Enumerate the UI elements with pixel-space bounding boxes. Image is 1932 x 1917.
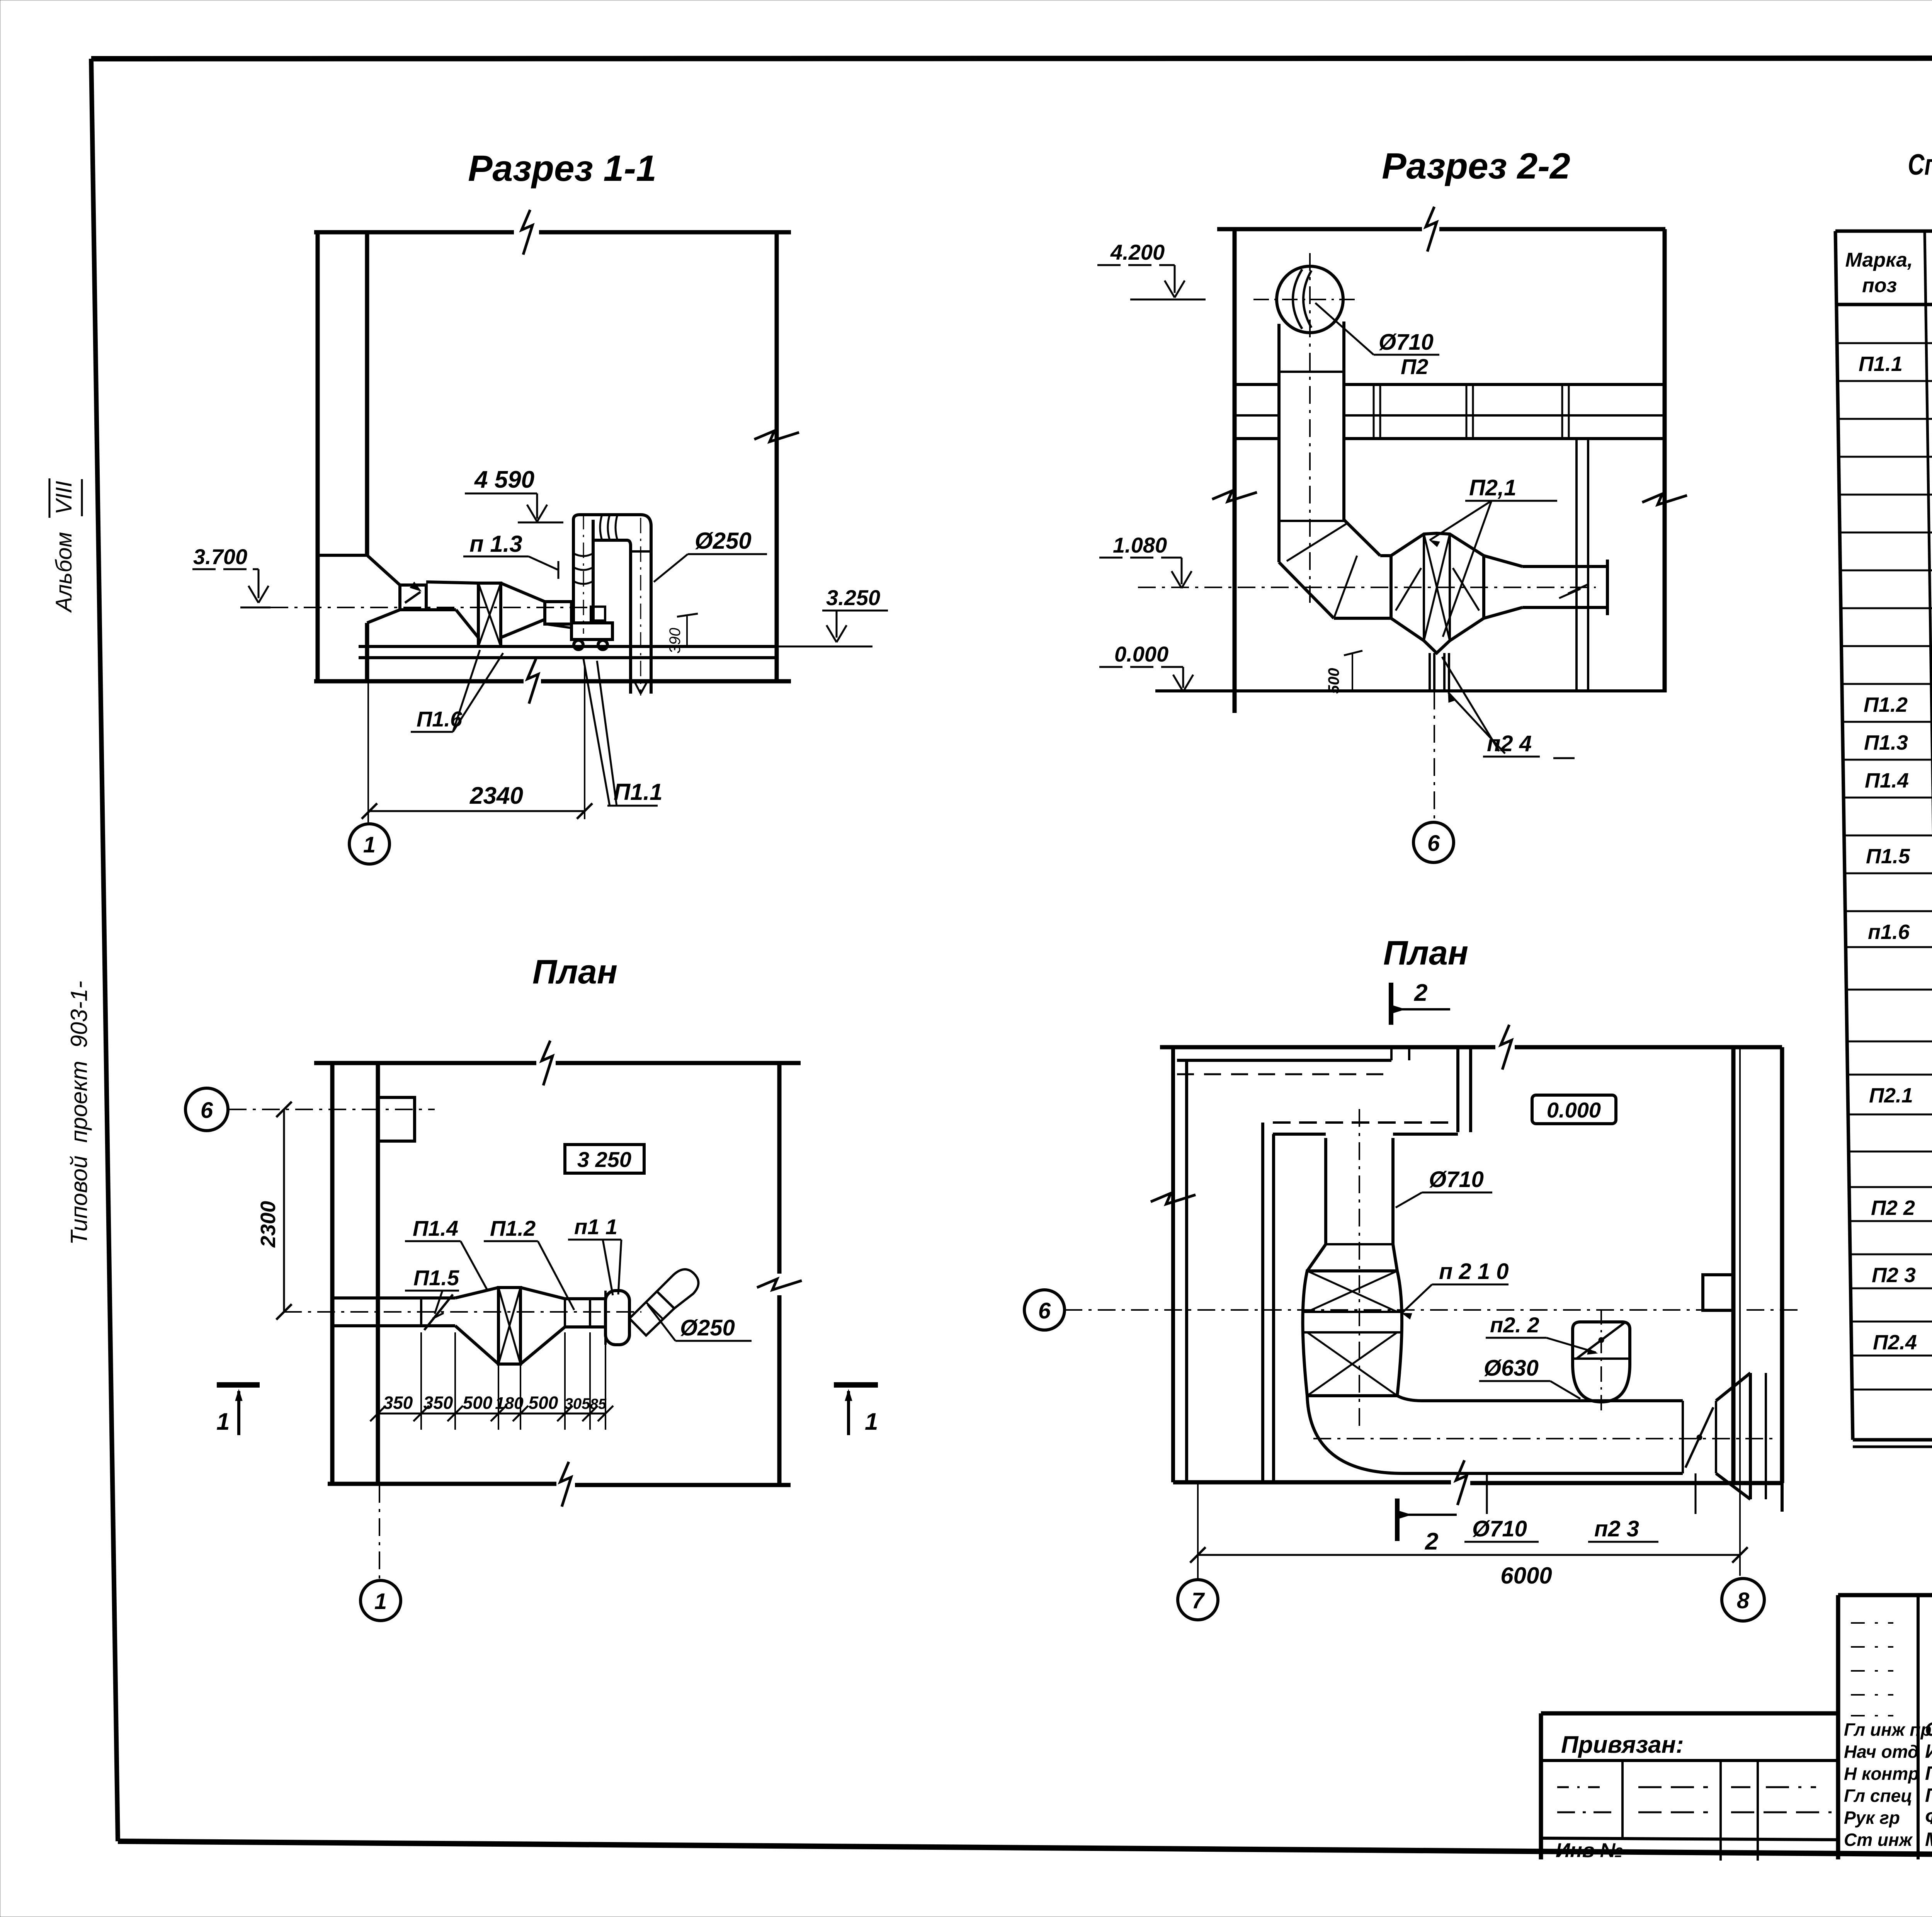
- floor slab bottom line: [359, 656, 777, 659]
- wall joint verticals at duct chase: [1390, 1047, 1393, 1060]
- svg-text:Спецификация отопительно-вент: Спецификация отопительно-вентиляционных …: [1908, 148, 1932, 181]
- fan wheel left: [574, 640, 583, 650]
- duct chase bottom wall: [1273, 1121, 1458, 1124]
- elbow inner corner: [1397, 1396, 1422, 1401]
- svg-text:Альбом: Альбом: [51, 532, 77, 613]
- svg-text:350: 350: [383, 1393, 413, 1413]
- break mark bottom wall plan-right: [1456, 1460, 1467, 1505]
- fan column centreline: [583, 514, 584, 634]
- svg-text:Ø710: Ø710: [1429, 1167, 1484, 1192]
- svg-text:180: 180: [495, 1394, 524, 1413]
- wall step ledge: [318, 554, 367, 557]
- svg-text:1: 1: [216, 1408, 230, 1435]
- damper П1.5 slash: [424, 1294, 453, 1330]
- plan-right right wall outer: [1780, 1047, 1784, 1483]
- discharge 45 duct segment: [629, 1291, 674, 1335]
- floor level line beyond wall (3.250): [777, 646, 872, 648]
- break mark left wall 2-2: [1212, 491, 1257, 502]
- svg-text:2340: 2340: [469, 782, 523, 809]
- svg-text:4 590: 4 590: [474, 466, 534, 493]
- svg-text:П1.5: П1.5: [413, 1266, 459, 1290]
- svg-text:Рук гр: Рук гр: [1844, 1808, 1900, 1828]
- dimension 2300 vertical: [283, 1109, 285, 1312]
- section 1-1 left wall inner line lower part: [365, 623, 369, 681]
- signature table upper dashes: [1851, 1622, 1893, 1624]
- pilaster on axis 6 right: [1703, 1275, 1733, 1310]
- svg-text:0.000: 0.000: [1114, 642, 1168, 666]
- supply duct top line (plan): [332, 1296, 455, 1300]
- outlet duct bottom: [1522, 606, 1607, 609]
- svg-text:п1 1: п1 1: [574, 1214, 617, 1239]
- fan joint: [604, 1291, 607, 1345]
- axis bubble 6 (plan-right): [1024, 1290, 1065, 1330]
- top elbow inner: [593, 539, 627, 542]
- duct bottom line to heater: [426, 608, 456, 611]
- horizontal duct centreline: [1313, 1438, 1777, 1439]
- equipment centreline 1-1: [270, 607, 587, 608]
- svg-text:85: 85: [590, 1396, 607, 1412]
- discharge joint lines: [646, 1302, 663, 1319]
- break mark bottom wall plan-left: [560, 1462, 571, 1507]
- horizontal axis 2-2: [1138, 587, 1596, 588]
- plan-left top wall: [314, 1061, 536, 1065]
- plan-right bottom wall: [1173, 1480, 1451, 1485]
- outlet duct top: [1522, 565, 1607, 568]
- svg-text:6: 6: [1038, 1298, 1051, 1323]
- svg-text:П1.2: П1.2: [490, 1216, 536, 1240]
- heater X (plan): [498, 1288, 520, 1364]
- svg-text:Ст инж: Ст инж: [1844, 1830, 1913, 1850]
- axis bubble 7: [1178, 1580, 1218, 1620]
- fan П1.1 discharge column right line: [592, 520, 595, 623]
- horizontal duct Ø710 top line: [1422, 1399, 1683, 1402]
- vertical duct Ø710 (plan) right line: [1391, 1138, 1395, 1244]
- svg-text:Фомина: Фомина: [1925, 1806, 1932, 1828]
- привязан dash rows: [1557, 1786, 1600, 1788]
- svg-text:П2 2: П2 2: [1871, 1196, 1915, 1220]
- svg-text:План: План: [532, 953, 617, 991]
- branch damper slash: [1577, 1322, 1626, 1359]
- flow arrow at duct end: [634, 680, 641, 694]
- duct joint at elbow start: [1279, 520, 1344, 522]
- louvre arrow: [405, 592, 420, 603]
- vertical duct П2 left line: [1277, 324, 1281, 562]
- section 2-2 ceiling line: [1217, 227, 1422, 231]
- wall-to-louvre transition bottom: [367, 610, 400, 623]
- привязан inner verticals: [1621, 1761, 1624, 1838]
- svg-text:П2,1: П2,1: [1469, 475, 1516, 500]
- axis 6 dash line plan-left: [229, 1109, 435, 1110]
- spec table header separator: [1837, 303, 1932, 306]
- duct Ø250 centreline down: [640, 518, 641, 696]
- svg-text:Инв №: Инв №: [1556, 1839, 1623, 1862]
- svg-text:П1.2: П1.2: [1864, 693, 1908, 716]
- section mark 2 bottom: [1395, 1499, 1400, 1541]
- heater П1.4 box (section): [478, 583, 501, 646]
- axis 6 dash line plan-right: [1065, 1309, 1724, 1311]
- svg-text:Ø250: Ø250: [680, 1315, 735, 1340]
- impeller arcs in circle: [1293, 269, 1302, 329]
- svg-text:Соловьев: Соловьев: [1925, 1718, 1932, 1740]
- svg-text:2: 2: [1425, 1528, 1438, 1555]
- heater П1.4 box (plan): [498, 1288, 520, 1364]
- dimension 390 vertical: [686, 615, 688, 646]
- break mark right wall plan-left: [757, 1279, 802, 1290]
- plan-right left wall: [1171, 1047, 1175, 1482]
- svg-text:План: План: [1383, 934, 1468, 972]
- circle horizontal axis: [1253, 299, 1360, 300]
- svg-text:П1.1: П1.1: [614, 779, 663, 805]
- plan-left outer left wall: [330, 1063, 335, 1484]
- flexible insert BB-10 curves on top duct: [600, 515, 602, 540]
- break mark on ceiling 2-2: [1426, 207, 1437, 252]
- dimension chain ticks: [370, 1406, 386, 1421]
- break mark left wall plan-right: [1151, 1193, 1196, 1204]
- svg-text:Галкина: Галкина: [1925, 1762, 1932, 1784]
- elbow top line to heater: [1380, 554, 1391, 557]
- elbow miter seam 2: [1334, 556, 1357, 618]
- fan base: [571, 623, 612, 640]
- svg-text:П1.5: П1.5: [1866, 845, 1910, 868]
- level box 3 250: [565, 1145, 644, 1173]
- intake louvre П1.5: [400, 585, 426, 610]
- duct joint line: [1326, 1243, 1393, 1245]
- svg-text:П2 3: П2 3: [1872, 1264, 1916, 1287]
- section 1-1 left wall outer line: [316, 232, 320, 681]
- converging transition top (plan): [520, 1288, 565, 1299]
- extension line at fan centre: [584, 665, 585, 819]
- elbow to horizontal duct (plan) outer arc: [1307, 1396, 1403, 1473]
- svg-text:6000: 6000: [1500, 1563, 1552, 1589]
- svg-text:П2: П2: [1401, 354, 1428, 379]
- svg-text:п1.6: п1.6: [1868, 920, 1910, 944]
- svg-text:8: 8: [1737, 1588, 1750, 1613]
- fan wheel right: [598, 640, 607, 650]
- right elbow outer: [627, 515, 651, 694]
- svg-text:6: 6: [201, 1098, 213, 1123]
- section 1-1 right wall: [775, 232, 779, 681]
- heater П2.1 hexagon outline: [1391, 533, 1484, 653]
- floor slab top line: [359, 645, 777, 648]
- svg-text:П2.4: П2.4: [1873, 1331, 1917, 1354]
- extension lines to dimension chain: [377, 1332, 379, 1430]
- upper slab line 3: [1235, 437, 1279, 440]
- duct П1.2 segment: [565, 1297, 605, 1300]
- break mark top wall plan-right: [1501, 1025, 1512, 1070]
- flexible insert П1.2 box: [545, 602, 571, 624]
- expanding transition bottom (plan): [455, 1326, 498, 1364]
- pilaster on axis 6: [378, 1097, 415, 1141]
- spec table outer frame: [1835, 230, 1932, 233]
- elbow bottom line: [1334, 617, 1391, 620]
- right elbow inner: [627, 540, 631, 694]
- dimension 6000: [1198, 1554, 1740, 1556]
- svg-text:3.250: 3.250: [826, 585, 880, 610]
- wall louvre verticals: [1749, 1373, 1752, 1499]
- heater X-brace: [478, 583, 501, 646]
- branch centreline: [1600, 1309, 1602, 1414]
- svg-text:2300: 2300: [257, 1201, 280, 1248]
- svg-text:Малыгин: Малыгин: [1925, 1829, 1932, 1850]
- axis line to bubble 6 (2-2): [1434, 692, 1435, 822]
- slab joint ticks: [1373, 384, 1375, 439]
- converging transition bottom (plan): [520, 1327, 565, 1364]
- vertical duct П2 right line: [1342, 321, 1345, 520]
- converging cone bottom: [501, 619, 545, 638]
- duct end cap at outside: [331, 1298, 334, 1326]
- upper slab line 2: [1235, 414, 1279, 417]
- heater corner slashes: [1396, 568, 1421, 611]
- break mark right wall 2-2: [1642, 494, 1687, 505]
- spec table row lines: [1837, 342, 1932, 344]
- break mark top wall plan-left: [542, 1041, 553, 1085]
- axis break arrow right: [1559, 584, 1588, 598]
- section mark 2 top: [1389, 983, 1393, 1025]
- heater seam lines: [1304, 1311, 1401, 1313]
- svg-text:350: 350: [423, 1393, 453, 1413]
- outlet cone to wall louvre: [1716, 1373, 1750, 1401]
- svg-text:Ø710: Ø710: [1379, 330, 1434, 355]
- svg-text:п2. 2: п2. 2: [1490, 1313, 1539, 1337]
- exit cone bottom: [1484, 607, 1522, 618]
- plan-left inner left wall: [376, 1063, 380, 1484]
- svg-text:п 2 1 0: п 2 1 0: [1439, 1259, 1509, 1284]
- svg-text:500: 500: [463, 1393, 493, 1413]
- svg-text:Гл инж пр: Гл инж пр: [1844, 1720, 1932, 1740]
- fan П1.1 scroll (plan): [605, 1291, 629, 1345]
- fan inlet circle Ø710: [1277, 266, 1343, 333]
- upper slab line 1: [1235, 383, 1279, 386]
- dimension 500 vertical: [1352, 653, 1353, 691]
- section mark 1 right: [834, 1382, 878, 1388]
- heater mid verticals: [1423, 534, 1425, 641]
- plan-right top wall inner line: [1177, 1059, 1391, 1062]
- wall-to-louvre transition top: [367, 555, 400, 585]
- section 1-1 left wall inner line: [365, 232, 369, 555]
- svg-text:Ø710: Ø710: [1472, 1516, 1527, 1541]
- svg-text:П1.1: П1.1: [1859, 352, 1903, 376]
- duct vertical centreline: [1309, 253, 1311, 603]
- plan-right right wall inner: [1731, 1047, 1736, 1482]
- svg-text:Разрез 2-2: Разрез 2-2: [1382, 146, 1570, 187]
- svg-text:1: 1: [374, 1589, 387, 1614]
- section 2-2 left wall: [1233, 229, 1237, 713]
- flexible joint lines on column: [573, 553, 593, 556]
- supply duct bottom line (plan): [332, 1324, 455, 1327]
- fan motor box: [591, 607, 605, 621]
- svg-text:Привязан:: Привязан:: [1561, 1732, 1684, 1758]
- svg-text:П2.1: П2.1: [1869, 1084, 1913, 1107]
- svg-text:6: 6: [1427, 831, 1440, 856]
- duct top line to heater: [426, 582, 478, 583]
- svg-text:Типовой проект 903-1-: Типовой проект 903-1-: [66, 981, 92, 1245]
- svg-text:Нач отд: Нач отд: [1844, 1742, 1918, 1762]
- duct joint at 350: [420, 1298, 422, 1326]
- lower wall below slab (right): [1575, 439, 1578, 691]
- partition wall left of heater: [1261, 1123, 1264, 1482]
- top elbow outer: [573, 515, 627, 520]
- signature table column lines: [1917, 1595, 1920, 1859]
- break mark on right wall: [754, 431, 799, 442]
- floor line 2-2: [1155, 689, 1665, 692]
- plan-right left wall inner line: [1185, 1060, 1188, 1482]
- dimension chain line: [378, 1413, 605, 1415]
- section 2-2 right wall: [1663, 229, 1667, 692]
- column axis line to bubble 1: [367, 681, 369, 822]
- dimension 2340: [369, 810, 585, 812]
- svg-text:Марка,: Марка,: [1845, 249, 1913, 271]
- svg-text:Н контр: Н контр: [1844, 1764, 1919, 1784]
- break mark on bottom line: [527, 659, 538, 704]
- discharge elbow cap: [657, 1269, 699, 1308]
- section 1-1 bottom boundary line: [314, 679, 524, 684]
- svg-text:3.700: 3.700: [193, 544, 247, 569]
- hidden edge dashed line: [1177, 1073, 1387, 1075]
- branch seam: [1573, 1357, 1630, 1360]
- axis bubble 8: [1722, 1579, 1764, 1621]
- axis bubble 6 (section 2-2): [1413, 822, 1454, 862]
- duct chase right wall: [1456, 1047, 1459, 1132]
- duct joint near circle: [1279, 371, 1344, 373]
- pривязан block frame: [1541, 1711, 1838, 1716]
- svg-text:0.000: 0.000: [1547, 1098, 1601, 1122]
- plan equipment centreline: [284, 1311, 641, 1313]
- svg-text:п2 3: п2 3: [1594, 1516, 1639, 1541]
- svg-text:1: 1: [865, 1408, 878, 1435]
- axis bubble 1 (section): [349, 824, 389, 864]
- svg-text:поз: поз: [1862, 274, 1897, 297]
- svg-text:1.080: 1.080: [1113, 533, 1167, 557]
- axis bubble 6 (plan-left): [185, 1088, 228, 1131]
- svg-text:VIII: VIII: [51, 481, 77, 514]
- sheet border frame: [91, 58, 1932, 59]
- svg-text:П1.3: П1.3: [1864, 731, 1908, 754]
- svg-text:4.200: 4.200: [1110, 240, 1165, 264]
- svg-text:500: 500: [1325, 668, 1342, 694]
- elbow miter seam 1: [1287, 522, 1349, 561]
- 0.000 level box: [1532, 1095, 1616, 1124]
- break mark on ceiling: [522, 210, 532, 255]
- section mark 1 left: [217, 1382, 260, 1388]
- svg-text:Ø630: Ø630: [1484, 1356, 1539, 1381]
- extension line at axis 8: [1739, 1048, 1741, 1576]
- svg-text:Ионкин: Ионкин: [1925, 1740, 1932, 1762]
- outlet flange: [1606, 560, 1609, 615]
- svg-text:3 250: 3 250: [577, 1147, 631, 1172]
- horizontal duct Ø710 bottom line: [1403, 1472, 1683, 1475]
- svg-text:Ø250: Ø250: [695, 528, 752, 554]
- svg-text:Га лкина: Га лкина: [1925, 1784, 1932, 1806]
- elbow inner diagonal: [1344, 520, 1380, 556]
- heater X cross: [1424, 534, 1450, 641]
- spec table column lines: [1925, 231, 1932, 1440]
- duct joint line at elbow: [631, 550, 651, 553]
- svg-text:П1.4: П1.4: [1865, 769, 1909, 792]
- svg-text:1: 1: [363, 832, 376, 857]
- heater X top: [1307, 1271, 1397, 1312]
- expanding transition top (plan): [455, 1288, 498, 1298]
- axis bubble 1 (plan-left): [361, 1580, 401, 1621]
- exit cone top: [1484, 556, 1522, 566]
- signature table frame: [1838, 1593, 1932, 1597]
- svg-text:2: 2: [1414, 980, 1427, 1006]
- svg-text:500: 500: [529, 1393, 558, 1413]
- svg-text:390: 390: [667, 628, 684, 654]
- extension line at axis 7: [1197, 1484, 1199, 1579]
- heater X bottom: [1307, 1332, 1397, 1396]
- pedestal П2.4 legs: [1429, 653, 1431, 691]
- svg-text:305: 305: [565, 1395, 590, 1412]
- fan П1.1 discharge column left line: [572, 520, 575, 623]
- svg-text:Гл спец: Гл спец: [1844, 1786, 1912, 1806]
- svg-text:П1.4: П1.4: [413, 1216, 458, 1240]
- plan-left right wall: [777, 1063, 782, 1274]
- plan-right top wall: [1160, 1045, 1495, 1050]
- vertical duct Ø710 (plan) left line: [1324, 1138, 1327, 1244]
- svg-text:п 1.3: п 1.3: [469, 531, 522, 557]
- duct to heater transition: [1307, 1244, 1326, 1271]
- branch П2.2 Ø630 shape: [1573, 1322, 1630, 1402]
- duct centreline vertical (plan-right): [1359, 1109, 1360, 1426]
- svg-text:Разрез 1-1: Разрез 1-1: [468, 148, 656, 189]
- elbow outer diagonal: [1279, 562, 1334, 618]
- section 1-1 ceiling line: [314, 230, 514, 235]
- svg-text:7: 7: [1192, 1588, 1205, 1613]
- converging cone top: [501, 583, 545, 602]
- damper П2.3 joints: [1682, 1401, 1684, 1473]
- heater П2.1 (plan) outline: [1303, 1271, 1402, 1396]
- plan-left bottom wall: [328, 1482, 556, 1486]
- axis line to bubble 1 (plan): [379, 1485, 380, 1580]
- damper П2.3 slash: [1685, 1407, 1713, 1468]
